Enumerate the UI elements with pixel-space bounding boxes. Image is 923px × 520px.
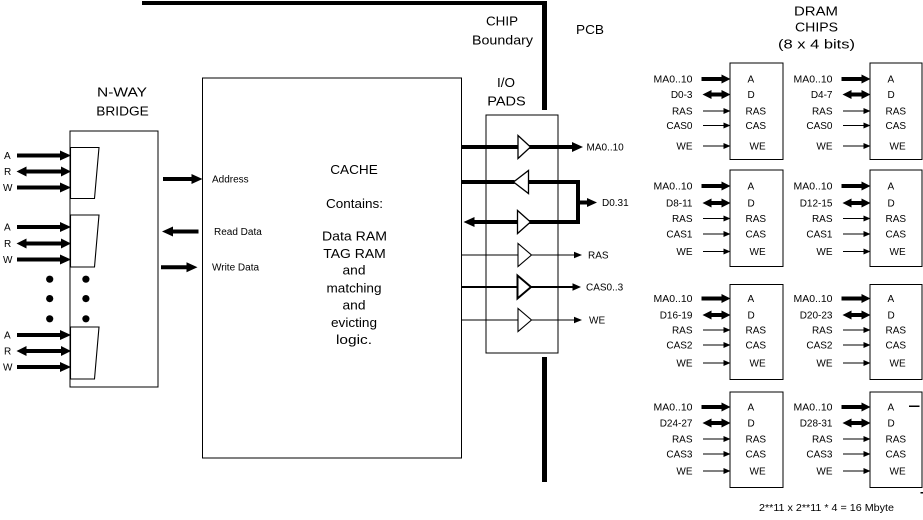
wire: Write Data bridge->cache arrow <box>161 262 198 272</box>
svg-text:D16-19: D16-19 <box>660 311 693 322</box>
buffer: D input receiver (left-pointing) <box>514 171 529 194</box>
ellipsis dots (more ways) <box>46 276 53 283</box>
svg-text:PADS: PADS <box>487 94 526 109</box>
svg-text:D: D <box>748 199 755 210</box>
svg-text:A: A <box>888 182 895 193</box>
svg-text:A: A <box>748 294 755 305</box>
svg-text:MA0..10: MA0..10 <box>654 75 693 86</box>
wire: WE cache->pad <box>461 319 518 321</box>
svg-text:RAS: RAS <box>812 435 833 446</box>
buffer: RAS driver <box>518 244 532 267</box>
wire: R double arrow way 3 <box>17 346 72 356</box>
svg-text:A: A <box>888 294 895 305</box>
svg-text:A: A <box>4 151 11 162</box>
wire: W arrow into way 2 <box>17 255 71 265</box>
wire: MA0..10 arrow into U2.A <box>842 75 871 84</box>
svg-text:CAS2: CAS2 <box>806 341 833 352</box>
wire: MA0..10 arrow into U7.A <box>702 403 731 412</box>
wire: A arrow into way 1 <box>17 151 71 161</box>
wire: WE arrow into U6.WE <box>843 362 865 364</box>
svg-text:D: D <box>748 311 755 322</box>
wire: D0.31 bus stub arrow <box>578 198 597 207</box>
svg-text:CAS: CAS <box>886 450 907 461</box>
wire: RAS arrow into U8.RAS <box>843 438 865 440</box>
svg-text:MA0..10: MA0..10 <box>654 182 693 193</box>
svg-text:RAS: RAS <box>746 214 767 225</box>
wire: MA bus cache->pad <box>461 145 518 149</box>
DRAM chip U6 box (row 3 col 2) <box>870 285 922 380</box>
svg-text:CAS0..3: CAS0..3 <box>586 283 624 294</box>
svg-text:WE: WE <box>750 467 766 478</box>
svg-text:D0-3: D0-3 <box>671 90 693 101</box>
wire: CAS1 arrow into U3.CAS <box>703 233 725 235</box>
svg-text:D28-31: D28-31 <box>800 419 833 430</box>
wire: CAS0 arrow into U2.CAS <box>843 125 865 127</box>
svg-text:RAS: RAS <box>672 326 693 337</box>
svg-text:WE: WE <box>589 316 605 327</box>
wire: CAS1 arrow into U4.CAS <box>843 233 865 235</box>
svg-text:MA0..10: MA0..10 <box>794 403 833 414</box>
svg-text:(8 x 4 bits): (8 x 4 bits) <box>778 37 855 52</box>
svg-text:A: A <box>748 182 755 193</box>
wire: MA0..10 arrow into U6.A <box>842 294 871 303</box>
svg-text:A: A <box>748 403 755 414</box>
wire: D24-27 double arrow at U7.D <box>703 419 731 428</box>
wire: WE arrow into U2.WE <box>843 145 865 147</box>
svg-text:WE: WE <box>816 467 832 478</box>
wire: MA0..10 arrow into U8.A <box>842 403 871 412</box>
wire: data bus vertical segment <box>576 180 580 224</box>
svg-text:D12-15: D12-15 <box>800 199 833 210</box>
svg-text:D: D <box>748 419 755 430</box>
svg-text:D: D <box>748 90 755 101</box>
svg-text:D8-11: D8-11 <box>666 199 693 210</box>
svg-text:Read Data: Read Data <box>214 227 262 238</box>
wire: MA0..10 output arrow <box>530 142 584 152</box>
wire: CAS0 arrow into U1.CAS <box>703 125 725 127</box>
wire: R double arrow way 1 <box>17 167 72 177</box>
svg-text:CAS: CAS <box>746 121 767 132</box>
svg-text:WE: WE <box>750 359 766 370</box>
svg-text:TAG RAM: TAG RAM <box>323 246 386 261</box>
wire: D bus to cache arrow (left) <box>464 217 518 227</box>
svg-text:D: D <box>888 90 895 101</box>
svg-text:and: and <box>343 298 366 313</box>
block: I/O PADS box <box>486 115 558 353</box>
svg-text:CAS: CAS <box>746 450 767 461</box>
wire: R double arrow way 2 <box>17 239 72 249</box>
wire: D driver to data bus <box>530 220 581 224</box>
wire: WE arrow into U1.WE <box>703 145 725 147</box>
DRAM chip U1 box (row 1 col 1) <box>730 63 783 160</box>
svg-text:D24-27: D24-27 <box>660 419 693 430</box>
svg-text:CAS3: CAS3 <box>806 450 833 461</box>
DRAM chip U5 box (row 3 col 1) <box>730 285 783 380</box>
svg-text:D: D <box>888 419 895 430</box>
wire: A arrow into way 3 <box>17 330 71 340</box>
svg-text:CACHE: CACHE <box>330 162 378 177</box>
svg-text:I/O: I/O <box>497 75 515 90</box>
svg-text:Address: Address <box>212 175 249 186</box>
svg-text:R: R <box>4 347 11 358</box>
wire: RAS arrow into U2.RAS <box>843 110 865 112</box>
svg-text:A: A <box>888 403 895 414</box>
svg-text:RAS: RAS <box>812 326 833 337</box>
wire: chip boundary top (horizontal) <box>142 1 547 5</box>
svg-text:N-WAY: N-WAY <box>97 85 147 100</box>
svg-text:CHIPS: CHIPS <box>795 20 838 35</box>
svg-text:WE: WE <box>890 247 906 258</box>
svg-text:CAS: CAS <box>746 341 767 352</box>
wire: MA0..10 arrow into U3.A <box>702 182 731 191</box>
wire: chip boundary vertical (PCB boundary), lower segment <box>542 357 547 482</box>
svg-text:D20-23: D20-23 <box>800 311 833 322</box>
svg-text:MA0..10: MA0..10 <box>794 182 833 193</box>
svg-text:Boundary: Boundary <box>472 33 534 48</box>
wire: RAS arrow into U3.RAS <box>703 218 725 220</box>
svg-text:CAS: CAS <box>746 230 767 241</box>
svg-text:RAS: RAS <box>672 214 693 225</box>
wire: CAS2 arrow into U5.CAS <box>703 344 725 346</box>
svg-text:A: A <box>4 223 11 234</box>
wire: D bus pad->cache (receive) <box>461 180 515 184</box>
svg-text:WE: WE <box>890 142 906 153</box>
svg-text:and: and <box>343 263 366 278</box>
wire: WE arrow into U5.WE <box>703 362 725 364</box>
tick mark at lower right of U8 <box>921 492 923 494</box>
svg-text:CAS: CAS <box>886 121 907 132</box>
wire: WE output arrow <box>531 319 576 321</box>
svg-text:CHIP: CHIP <box>486 14 518 29</box>
wire: D0-3 double arrow at U1.D <box>703 90 731 99</box>
wire: D20-23 double arrow at U6.D <box>843 311 871 320</box>
wire: D8-11 double arrow at U3.D <box>703 199 731 208</box>
svg-text:RAS: RAS <box>886 214 907 225</box>
svg-text:RAS: RAS <box>886 326 907 337</box>
DRAM chip U4 box (row 2 col 2) <box>870 170 922 267</box>
buffer: CAS driver <box>518 276 532 299</box>
svg-text:D0.31: D0.31 <box>602 198 629 209</box>
svg-text:RAS: RAS <box>746 326 767 337</box>
block: CACHE box <box>203 78 462 458</box>
svg-text:WE: WE <box>890 359 906 370</box>
wire: MA0..10 arrow into U4.A <box>842 182 871 191</box>
svg-text:WE: WE <box>676 359 692 370</box>
svg-text:logic.: logic. <box>336 332 372 347</box>
wire: MA0..10 arrow into U1.A <box>702 75 731 84</box>
svg-text:A: A <box>4 331 11 342</box>
wire: chip boundary vertical (PCB boundary), upper segment <box>542 1 547 110</box>
wire: WE arrow into U4.WE <box>843 251 865 253</box>
svg-text:A: A <box>748 75 755 86</box>
svg-text:CAS: CAS <box>886 341 907 352</box>
svg-text:BRIDGE: BRIDGE <box>96 104 149 119</box>
wire: CAS cache->pad <box>461 286 518 288</box>
bridge way 2 trapezoid <box>71 215 100 267</box>
svg-text:RAS: RAS <box>746 107 767 118</box>
svg-text:CAS1: CAS1 <box>666 230 693 241</box>
wire: CAS0..3 output arrow <box>530 286 574 288</box>
svg-text:WE: WE <box>816 359 832 370</box>
svg-text:WE: WE <box>676 142 692 153</box>
svg-text:RAS: RAS <box>812 107 833 118</box>
svg-text:RAS: RAS <box>812 214 833 225</box>
wire: WE arrow into U3.WE <box>703 251 725 253</box>
svg-text:MA0..10: MA0..10 <box>794 294 833 305</box>
svg-text:2**11 x 2**11 * 4 = 16 Mbyte: 2**11 x 2**11 * 4 = 16 Mbyte <box>759 503 894 514</box>
svg-text:evicting: evicting <box>331 315 377 330</box>
wire: RAS output arrow <box>531 254 576 256</box>
svg-text:RAS: RAS <box>746 435 767 446</box>
DRAM chip U8 box (row 4 col 2) <box>870 392 922 488</box>
svg-text:RAS: RAS <box>886 435 907 446</box>
wire: CAS2 arrow into U6.CAS <box>843 344 865 346</box>
svg-text:CAS: CAS <box>886 230 907 241</box>
svg-text:RAS: RAS <box>672 435 693 446</box>
wire: RAS arrow into U4.RAS <box>843 218 865 220</box>
svg-text:DRAM: DRAM <box>794 4 838 19</box>
wire: CAS3 arrow into U7.CAS <box>703 453 725 455</box>
svg-text:Write Data: Write Data <box>212 263 259 274</box>
svg-text:WE: WE <box>890 467 906 478</box>
wire: RAS cache->pad <box>461 254 518 256</box>
buffer: D output driver <box>518 211 531 234</box>
svg-text:D4-7: D4-7 <box>811 90 833 101</box>
wire: D receiver to data bus <box>528 180 580 184</box>
svg-text:PCB: PCB <box>576 22 604 37</box>
DRAM chip U2 box (row 1 col 2) <box>870 63 922 160</box>
svg-text:CAS1: CAS1 <box>806 230 833 241</box>
bridge way 3 trapezoid <box>71 327 100 379</box>
svg-text:R: R <box>4 167 11 178</box>
wire: W arrow into way 3 <box>17 362 71 372</box>
svg-text:WE: WE <box>676 247 692 258</box>
svg-text:D: D <box>888 311 895 322</box>
svg-text:matching: matching <box>327 281 382 296</box>
svg-text:CAS0: CAS0 <box>666 121 693 132</box>
svg-text:RAS: RAS <box>886 107 907 118</box>
svg-text:CAS2: CAS2 <box>666 341 693 352</box>
svg-text:W: W <box>3 183 13 194</box>
wire: WE arrow into U8.WE <box>843 470 865 472</box>
svg-text:RAS: RAS <box>588 251 609 262</box>
svg-text:D: D <box>888 199 895 210</box>
svg-text:RAS: RAS <box>672 107 693 118</box>
buffer: WE driver <box>518 309 532 332</box>
wire: D16-19 double arrow at U5.D <box>703 311 731 320</box>
svg-text:WE: WE <box>816 247 832 258</box>
svg-text:WE: WE <box>676 467 692 478</box>
bridge way 1 trapezoid <box>71 148 100 199</box>
svg-text:A: A <box>888 75 895 86</box>
wire: W arrow into way 1 <box>17 183 71 193</box>
dash mark next to U8 pin A <box>909 405 920 407</box>
wire: RAS arrow into U5.RAS <box>703 329 725 331</box>
svg-text:MA0..10: MA0..10 <box>587 143 625 154</box>
svg-text:W: W <box>3 255 13 266</box>
buffer: MA address driver <box>518 136 531 159</box>
wire: D12-15 double arrow at U4.D <box>843 199 871 208</box>
svg-text:CAS0: CAS0 <box>806 121 833 132</box>
svg-text:MA0..10: MA0..10 <box>654 403 693 414</box>
wire: A arrow into way 2 <box>17 222 71 232</box>
block: N-WAY BRIDGE box <box>70 131 158 387</box>
svg-text:Contains:: Contains: <box>326 196 383 211</box>
svg-text:CAS3: CAS3 <box>666 450 693 461</box>
svg-text:WE: WE <box>750 142 766 153</box>
DRAM chip U3 box (row 2 col 1) <box>730 170 783 267</box>
wire: MA0..10 arrow into U5.A <box>702 294 731 303</box>
svg-text:R: R <box>4 239 11 250</box>
wire: D28-31 double arrow at U8.D <box>843 419 871 428</box>
wire: WE arrow into U7.WE <box>703 470 725 472</box>
svg-text:W: W <box>3 363 13 374</box>
wire: RAS arrow into U6.RAS <box>843 329 865 331</box>
svg-text:WE: WE <box>816 142 832 153</box>
svg-text:WE: WE <box>750 247 766 258</box>
wire: D4-7 double arrow at U2.D <box>843 90 871 99</box>
wire: RAS arrow into U7.RAS <box>703 438 725 440</box>
svg-text:MA0..10: MA0..10 <box>654 294 693 305</box>
wire: Address bridge->cache arrow <box>163 174 203 184</box>
wire: CAS3 arrow into U8.CAS <box>843 453 865 455</box>
wire: Read Data cache->bridge arrow <box>162 227 199 237</box>
DRAM chip U7 box (row 4 col 1) <box>730 392 783 488</box>
wire: RAS arrow into U1.RAS <box>703 110 725 112</box>
svg-text:MA0..10: MA0..10 <box>794 75 833 86</box>
svg-text:Data RAM: Data RAM <box>322 229 387 244</box>
